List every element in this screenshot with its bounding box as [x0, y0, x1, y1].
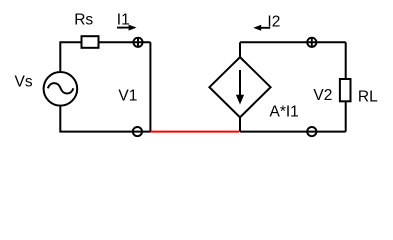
resistor Rs	[82, 36, 99, 48]
current label I1	[117, 12, 137, 31]
wire: left loop right vertical	[149, 42, 151, 131]
wire: top right (diamond to node V2+ to corner)	[240, 41, 346, 43]
svg-text:A*I1: A*I1	[270, 103, 299, 120]
wire: left branch top (Vs up, corner, through Rs to node V1+)	[60, 42, 150, 71]
current label I2	[253, 13, 280, 30]
wire: left branch bottom (Vs down, corner, to junction)	[60, 106, 150, 132]
resistor RL	[340, 79, 351, 101]
svg-text:Rs: Rs	[74, 12, 93, 29]
voltage source Vs	[44, 72, 78, 106]
node: V1 positive terminal	[133, 38, 142, 47]
svg-text:V2: V2	[313, 87, 332, 104]
node: V2 negative terminal	[307, 127, 316, 136]
wire: right vertical through RL	[345, 42, 347, 131]
svg-text:I1: I1	[117, 12, 130, 29]
svg-text:V1: V1	[118, 87, 137, 104]
wire: bottom right	[240, 131, 346, 133]
node: V1 negative terminal	[133, 127, 142, 136]
wire: diamond top stub	[239, 42, 241, 58]
svg-text:Vs: Vs	[15, 74, 33, 91]
svg-text:RL: RL	[358, 89, 378, 106]
wire: highlighted net (red)	[150, 131, 239, 133]
wire: diamond bottom stub	[239, 117, 241, 132]
dependent current source A*I1	[209, 57, 270, 117]
node: V2 positive terminal	[307, 38, 316, 47]
